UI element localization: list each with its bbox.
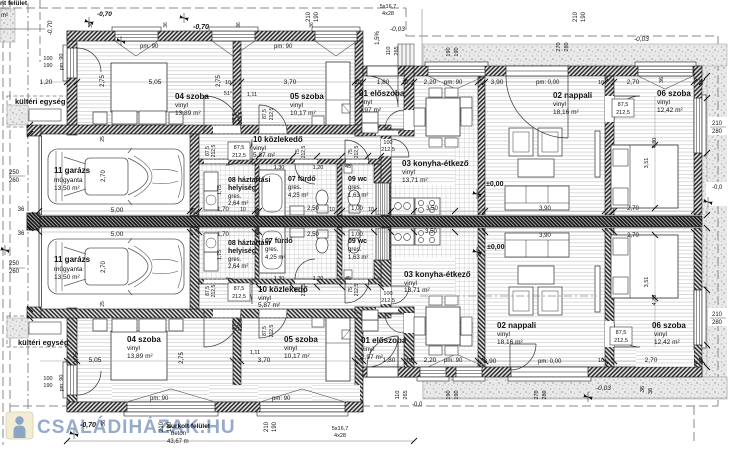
washing machine haztartasi — [204, 172, 218, 191]
svg-text:36: 36 — [648, 388, 654, 394]
svg-text:-0,0: -0,0 — [412, 402, 423, 408]
floor finish: eloszoba vinyl — [363, 76, 404, 130]
svg-text:08 háztartási: 08 háztartási — [228, 177, 270, 184]
svg-text:210: 210 — [159, 421, 165, 432]
svg-text:36: 36 — [236, 22, 242, 28]
svg-text:250: 250 — [9, 261, 20, 267]
svg-text:05 szoba: 05 szoba — [290, 92, 324, 101]
coffee table nappali — [518, 159, 554, 177]
floor finish: room 04 vinyl — [77, 41, 233, 125]
svg-text:3,90: 3,90 — [484, 358, 497, 365]
svg-text:műgyanta: műgyanta — [54, 266, 83, 273]
svg-text:2,97 m²: 2,97 m² — [361, 354, 384, 361]
svg-text:vinyl: vinyl — [497, 331, 511, 338]
svg-text:1,63 m²: 1,63 m² — [348, 193, 368, 199]
wall: garage corner stub — [27, 125, 41, 136]
svg-text:1,80: 1,80 — [377, 79, 390, 86]
svg-text:2,70: 2,70 — [101, 261, 107, 273]
wall: top exterior right wing — [363, 66, 702, 76]
svg-text:pm: 90: pm: 90 — [444, 358, 463, 364]
svg-text:07 fürdő: 07 fürdő — [288, 176, 316, 183]
cover mirrored V of 06 window (no bottom window) — [636, 350, 694, 367]
svg-text:4,25 m²: 4,25 m² — [265, 255, 285, 261]
vert dim line right outside — [706, 70, 708, 215]
svg-text:03 konyha-étkező: 03 konyha-étkező — [404, 270, 471, 279]
svg-text:2,70: 2,70 — [627, 233, 639, 239]
wall: haztartasi|furdo — [255, 164, 259, 216]
svg-text:212,5: 212,5 — [232, 294, 246, 300]
bottom wing wall redrawn — [423, 377, 727, 398]
svg-text:vinyl: vinyl — [284, 345, 298, 352]
door gap room05 — [259, 126, 287, 134]
svg-text:1,75: 1,75 — [217, 185, 223, 195]
svg-text:280: 280 — [564, 42, 570, 51]
svg-text:100: 100 — [383, 140, 392, 146]
svg-text:13,50 m²: 13,50 m² — [54, 274, 80, 281]
wall: room05|eloszoba + step — [355, 41, 363, 136]
svg-text:07 fürdő: 07 fürdő — [265, 238, 293, 245]
svg-text:212,5: 212,5 — [616, 110, 630, 116]
svg-text:04 szoba: 04 szoba — [127, 335, 161, 344]
door arc haztartasi — [226, 139, 252, 165]
svg-text:190: 190 — [43, 63, 52, 69]
floor tiles: kitchen work zone — [391, 185, 455, 216]
svg-text:10: 10 — [240, 207, 246, 213]
svg-text:212,5: 212,5 — [301, 284, 307, 297]
svg-text:vinyl: vinyl — [361, 346, 375, 353]
svg-text:1,20: 1,20 — [313, 276, 324, 282]
svg-text:87,5: 87,5 — [616, 330, 627, 336]
svg-text:43,67 m: 43,67 m — [167, 439, 189, 445]
svg-text:250: 250 — [9, 170, 20, 176]
party wall stub at garage door — [27, 213, 40, 230]
garage door line — [39, 136, 41, 215]
door arc wc — [345, 140, 369, 164]
wall: under eloszoba — [355, 130, 414, 136]
svg-text:12,42 m²: 12,42 m² — [657, 107, 683, 114]
svg-text:36: 36 — [659, 77, 665, 83]
dining table — [426, 98, 460, 136]
svg-text:±0,00: ±0,00 — [487, 244, 505, 251]
svg-text:2,70: 2,70 — [627, 206, 639, 212]
svg-text:pm: 90: pm: 90 — [444, 80, 463, 86]
window kitchen top — [428, 66, 485, 76]
svg-text:pm: 90: pm: 90 — [272, 396, 291, 402]
right edge dims — [708, 117, 730, 135]
svg-text:vinyl: vinyl — [127, 345, 141, 352]
svg-text:3,50: 3,50 — [426, 206, 438, 212]
svg-text:210: 210 — [573, 11, 579, 22]
wall: rooms|garage — [40, 125, 391, 134]
svg-text:4,25 m²: 4,25 m² — [288, 193, 308, 199]
svg-text:265: 265 — [394, 46, 400, 55]
svg-text:190: 190 — [446, 47, 452, 56]
svg-text:1,63 m²: 1,63 m² — [348, 255, 368, 261]
wall: wc|shaft — [374, 164, 391, 183]
svg-text:gres.: gres. — [348, 185, 362, 191]
svg-text:25: 25 — [100, 136, 106, 142]
svg-text:5,87 m²: 5,87 m² — [253, 152, 276, 159]
svg-text:kültéri egység: kültéri egység — [15, 97, 66, 106]
nightstands room04 — [93, 112, 107, 124]
svg-text:190: 190 — [581, 11, 587, 22]
svg-text:2,20: 2,20 — [424, 357, 437, 364]
legend patch top-left — [0, 9, 15, 42]
svg-text:03 konyha-étkező: 03 konyha-étkező — [402, 159, 469, 168]
svg-text:260: 260 — [9, 178, 20, 184]
svg-text:5x16,7: 5x16,7 — [332, 426, 349, 432]
svg-text:212,5: 212,5 — [354, 284, 360, 297]
svg-text:190: 190 — [446, 390, 452, 399]
svg-text:vinyl: vinyl — [175, 102, 189, 109]
svg-text:87,5: 87,5 — [234, 145, 245, 151]
svg-text:5,05: 5,05 — [149, 79, 162, 86]
svg-text:45: 45 — [345, 276, 351, 282]
door arc corridor-kitchen — [391, 139, 409, 157]
floor tiles: furdo — [259, 164, 337, 216]
floor finish: room 05 vinyl — [241, 41, 355, 125]
svg-text:kültéri egység: kültéri egység — [18, 338, 69, 347]
svg-text:87,5: 87,5 — [234, 286, 245, 292]
wall: left exterior (rooms) — [67, 31, 77, 135]
svg-text:36: 36 — [640, 386, 646, 392]
V mark win1 — [115, 41, 158, 56]
svg-text:18,16 m²: 18,16 m² — [553, 109, 579, 116]
svg-text:212,5: 212,5 — [238, 319, 244, 332]
svg-text:270: 270 — [534, 390, 540, 399]
svg-text:10: 10 — [598, 80, 604, 86]
svg-text:1,30: 1,30 — [274, 165, 285, 171]
svg-text:13,71 m²: 13,71 m² — [402, 177, 428, 184]
svg-text:212,5: 212,5 — [354, 146, 360, 159]
bed room04 — [111, 63, 167, 112]
bottom entrance door unit 2 — [367, 367, 398, 377]
dim chain rooms y82 — [40, 81, 702, 83]
svg-text:3,90: 3,90 — [491, 79, 504, 86]
svg-text:pm: 0,00: pm: 0,00 — [538, 359, 562, 365]
svg-text:36: 36 — [309, 22, 315, 28]
svg-text:36: 36 — [699, 359, 705, 365]
svg-text:11 garázs: 11 garázs — [54, 255, 91, 264]
wardrobe room05 — [326, 62, 350, 125]
svg-text:01 előszoba: 01 előszoba — [359, 89, 405, 98]
party wall center — [39, 217, 702, 227]
svg-text:110: 110 — [395, 391, 401, 400]
svg-text:1,75: 1,75 — [217, 250, 223, 260]
wall: furdo|wc — [337, 164, 342, 216]
svg-text:01 előszoba: 01 előszoba — [361, 336, 407, 345]
door gap room04 — [213, 126, 241, 134]
door arc szoba06 — [614, 96, 640, 122]
svg-text:10,17 m²: 10,17 m² — [290, 110, 316, 117]
svg-text:vinyl: vinyl — [404, 280, 418, 287]
svg-text:2,70: 2,70 — [101, 170, 107, 182]
svg-text:helyiség: helyiség — [228, 185, 256, 192]
svg-text:vinyl: vinyl — [657, 99, 671, 106]
svg-text:10: 10 — [329, 207, 335, 213]
window room04 top — [115, 31, 158, 41]
svg-text:3,70: 3,70 — [284, 79, 297, 86]
svg-text:09 wc: 09 wc — [348, 238, 367, 245]
terrace door arc bottom — [510, 344, 536, 370]
svg-text:4x28: 4x28 — [382, 11, 394, 17]
svg-text:nt felület: nt felület — [0, 0, 28, 7]
svg-text:110: 110 — [386, 47, 392, 56]
svg-text:gres.: gres. — [265, 247, 279, 253]
dim chain corridor y156 — [256, 155, 391, 157]
door gap eloszoba-kitchen — [404, 110, 414, 130]
svg-text:02 nappali: 02 nappali — [553, 91, 592, 100]
svg-text:gres.: gres. — [228, 194, 242, 200]
svg-text:1,11: 1,11 — [250, 350, 260, 356]
svg-text:2,50: 2,50 — [307, 232, 319, 238]
svg-text:-0,0: -0,0 — [712, 185, 723, 191]
svg-text:vinyl: vinyl — [253, 145, 267, 152]
svg-text:3,50: 3,50 — [425, 229, 437, 235]
svg-text:2,97 m²: 2,97 m² — [359, 107, 382, 114]
V mark win3 — [315, 41, 357, 56]
svg-text:5,00: 5,00 — [111, 231, 124, 238]
svg-text:gres.: gres. — [288, 185, 302, 191]
svg-text:280: 280 — [712, 320, 723, 326]
svg-text:190: 190 — [454, 390, 460, 399]
svg-text:13,71 m²: 13,71 m² — [404, 287, 430, 294]
svg-text:212,5: 212,5 — [238, 112, 244, 125]
svg-text:36: 36 — [101, 420, 107, 426]
svg-text:212,5: 212,5 — [381, 147, 395, 153]
svg-text:-0,03: -0,03 — [596, 385, 611, 392]
floor tiles: wc — [342, 164, 374, 216]
svg-text:-0,70: -0,70 — [97, 11, 112, 18]
wall: nappali|szoba06 — [605, 76, 614, 215]
wall: garage|small rooms — [190, 134, 199, 216]
svg-text:04 szoba: 04 szoba — [175, 92, 209, 101]
car in garage — [48, 148, 184, 205]
window room04 left wall — [67, 48, 77, 78]
svg-text:280: 280 — [542, 390, 548, 399]
svg-text:212,5: 212,5 — [211, 145, 217, 158]
toilet wc — [348, 190, 360, 206]
svg-text:36: 36 — [163, 22, 169, 28]
svg-text:m²: m² — [1, 13, 8, 19]
chairs — [429, 88, 442, 97]
svg-text:10: 10 — [406, 358, 412, 364]
svg-text:10: 10 — [598, 358, 604, 364]
svg-text:3,51: 3,51 — [644, 277, 650, 288]
svg-text:13,89 m²: 13,89 m² — [175, 110, 201, 117]
svg-text:burkolt felület: burkolt felület — [167, 423, 211, 430]
svg-text:5,05: 5,05 — [89, 357, 102, 364]
floor finish: szoba06 vinyl — [614, 76, 694, 215]
svg-text:36: 36 — [18, 207, 25, 213]
door arc room05 — [259, 105, 287, 133]
svg-text:vinyl: vinyl — [258, 295, 272, 302]
svg-text:190: 190 — [272, 421, 278, 432]
svg-text:1,70: 1,70 — [217, 207, 229, 213]
svg-text:45: 45 — [345, 164, 351, 170]
bed szoba06 — [611, 145, 678, 208]
svg-text:260: 260 — [9, 269, 20, 275]
V mark kitchen win — [428, 76, 485, 89]
svg-text:10: 10 — [225, 80, 231, 86]
svg-text:3,51: 3,51 — [644, 158, 650, 169]
svg-text:1,20: 1,20 — [313, 165, 324, 171]
svg-text:280: 280 — [712, 129, 723, 135]
svg-text:-0,70: -0,70 — [80, 422, 96, 429]
bottom-left exterior wall redrawn (two wide windows) — [60, 412, 370, 418]
svg-text:1,00: 1,00 — [351, 232, 363, 238]
floor tiles: haztartasi — [199, 164, 255, 216]
kitchen appliances on wall — [460, 97, 472, 108]
svg-text:212,5: 212,5 — [381, 298, 395, 304]
door gap furdo — [295, 160, 317, 164]
svg-text:-0,70: -0,70 — [47, 20, 54, 35]
svg-text:vinyl: vinyl — [553, 101, 567, 108]
svg-text:1,80: 1,80 — [383, 357, 396, 364]
svg-text:1,5%: 1,5% — [375, 31, 381, 45]
vanity furdo — [290, 206, 304, 215]
svg-text:87,5: 87,5 — [262, 326, 268, 336]
svg-text:10: 10 — [355, 80, 361, 86]
svg-text:18,16 m²: 18,16 m² — [497, 339, 523, 346]
svg-text:2,64 m²: 2,64 m² — [228, 264, 248, 270]
svg-text:vinyl: vinyl — [359, 99, 373, 106]
door arc left wall window — [77, 48, 101, 72]
svg-text:2,50: 2,50 — [307, 206, 319, 212]
svg-text:pm: 0,00: pm: 0,00 — [536, 80, 560, 86]
svg-text:vinyl: vinyl — [654, 331, 668, 338]
svg-text:06 szoba: 06 szoba — [652, 321, 686, 330]
svg-text:műgyanta: műgyanta — [54, 177, 83, 184]
armchair 1 nappali — [509, 128, 533, 156]
svg-text:2,75: 2,75 — [74, 352, 80, 364]
svg-text:190: 190 — [314, 11, 320, 22]
floor finish: nappali vinyl — [485, 76, 605, 215]
door arc entrance — [367, 76, 398, 107]
svg-text:2,75: 2,75 — [179, 352, 185, 364]
svg-text:210: 210 — [306, 11, 312, 22]
svg-text:2,70: 2,70 — [645, 357, 658, 364]
V mark win2 — [212, 41, 255, 56]
svg-text:pm: 90: pm: 90 — [59, 375, 65, 392]
svg-text:36: 36 — [699, 79, 705, 85]
svg-text:210: 210 — [712, 312, 723, 318]
svg-text:100: 100 — [383, 291, 392, 297]
svg-text:02 nappali: 02 nappali — [497, 321, 536, 330]
terrace door arc top — [506, 76, 568, 138]
svg-text:10: 10 — [402, 80, 408, 86]
door arc furdo — [295, 164, 315, 184]
door gap haztartasi — [204, 160, 228, 164]
armchair 2 nappali — [538, 128, 562, 156]
toilet furdo — [316, 190, 328, 206]
door gap eloszoba-corridor — [376, 131, 398, 136]
shaft — [376, 183, 390, 215]
svg-text:gres.: gres. — [348, 247, 362, 253]
door: main entrance top — [367, 66, 398, 76]
tv board nappali — [595, 131, 600, 177]
svg-text:87,5: 87,5 — [262, 109, 268, 119]
V mark szoba06 win — [638, 76, 693, 89]
svg-text:1,00: 1,00 — [351, 206, 363, 212]
svg-text:25: 25 — [100, 301, 106, 307]
entry porch steps — [398, 44, 414, 66]
svg-text:100: 100 — [43, 56, 52, 62]
svg-text:210: 210 — [712, 121, 723, 127]
door arc eloszoba-kitchen — [385, 110, 404, 129]
svg-text:12,42 m²: 12,42 m² — [654, 339, 680, 346]
svg-text:2,75: 2,75 — [100, 75, 106, 87]
svg-text:helyiség: helyiség — [228, 248, 256, 255]
svg-text:-0,03: -0,03 — [390, 26, 405, 33]
watermark logo — [6, 412, 33, 439]
bathtub furdo — [259, 170, 285, 216]
svg-text:pm: 90: pm: 90 — [150, 396, 169, 402]
wall: divider room04|05 — [233, 41, 241, 133]
svg-text:190: 190 — [454, 47, 460, 56]
svg-text:vinyl: vinyl — [402, 169, 416, 176]
svg-text:87,5: 87,5 — [618, 102, 629, 108]
dim chain y211 — [39, 210, 694, 212]
svg-text:-0,03: -0,03 — [634, 36, 649, 43]
vert dim line left x30 — [27, 122, 33, 128]
svg-text:10: 10 — [368, 207, 374, 213]
svg-text:4,80: 4,80 — [652, 138, 658, 149]
svg-text:36: 36 — [18, 231, 25, 237]
svg-text:05 szoba: 05 szoba — [284, 335, 318, 344]
svg-text:212,5: 212,5 — [269, 108, 275, 121]
wall: left block right / kitchen — [381, 134, 391, 216]
svg-text:06 szoba: 06 szoba — [657, 89, 691, 98]
svg-text:210: 210 — [264, 421, 270, 432]
svg-text:4x28: 4x28 — [334, 433, 346, 439]
svg-text:1,30: 1,30 — [274, 276, 285, 282]
svg-text:212,5: 212,5 — [211, 285, 217, 298]
wall: corridor|small rooms — [199, 159, 391, 164]
svg-text:212,5: 212,5 — [614, 338, 628, 344]
sofa nappali — [505, 186, 569, 210]
svg-text:5,00: 5,00 — [111, 207, 124, 214]
svg-text:gres.: gres. — [228, 257, 242, 263]
kitchen stove — [415, 198, 440, 215]
dash-dot axis right wing bottom — [420, 295, 597, 297]
svg-text:13,89 m²: 13,89 m² — [127, 353, 153, 360]
svg-text:3,90: 3,90 — [539, 233, 551, 239]
svg-text:1,20: 1,20 — [40, 79, 53, 86]
svg-text:4,80: 4,80 — [652, 295, 658, 306]
window szoba06 top — [638, 66, 693, 76]
svg-text:vinyl: vinyl — [290, 102, 304, 109]
svg-text:2,75: 2,75 — [216, 75, 222, 87]
kültéri egység box bottom — [7, 316, 68, 347]
door gap kitchen from corridor — [381, 139, 391, 156]
svg-text:2,20: 2,20 — [424, 79, 437, 86]
svg-text:1,70: 1,70 — [217, 232, 229, 238]
door arc room04 — [204, 96, 241, 133]
door gap wc — [346, 160, 368, 164]
svg-text:pm: 90: pm: 90 — [140, 44, 159, 50]
small sink wc — [344, 165, 352, 173]
terrace paving bottom (speckled) — [423, 377, 727, 399]
wall: right exterior — [694, 66, 702, 215]
terrace paving right strip — [703, 44, 727, 398]
svg-text:25: 25 — [191, 208, 197, 214]
svg-text:10 közlekedő: 10 közlekedő — [253, 135, 303, 144]
svg-text:1,11: 1,11 — [247, 92, 257, 98]
svg-text:212,5: 212,5 — [269, 325, 275, 338]
door label boxes top — [228, 142, 250, 160]
wall: kitchen|nappali — [478, 76, 485, 215]
